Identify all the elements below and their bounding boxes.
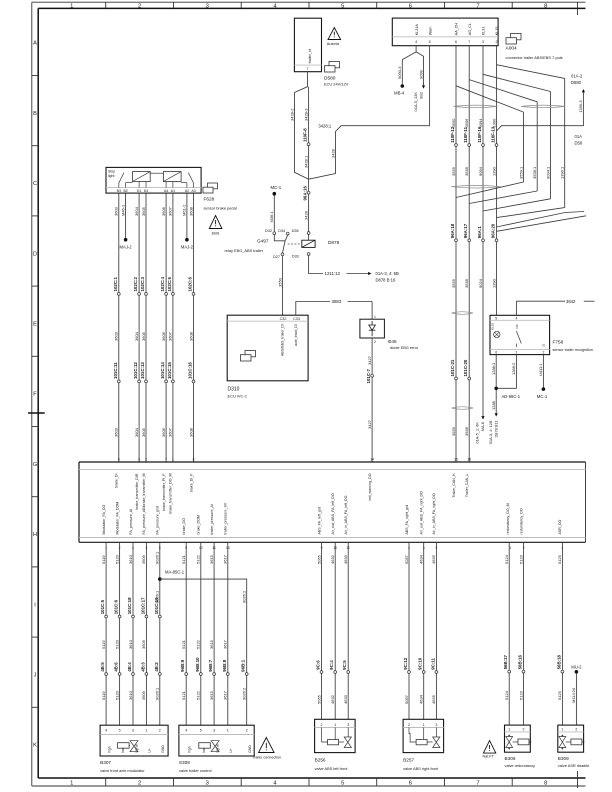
wire 5119 [101, 542, 106, 725]
svg-text:101C-21: 101C-21 [450, 359, 455, 376]
svg-text:3609: 3609 [141, 554, 146, 564]
svg-text:M36:1: M36:1 [269, 211, 274, 223]
node MA-85C-1 [158, 570, 185, 581]
strip pin brake_DI [115, 457, 120, 488]
strip pin redundancy_DO [520, 508, 525, 550]
svg-text:01A: 01A [575, 134, 583, 139]
svg-text:4635: 4635 [431, 554, 436, 564]
svg-text:96A:17: 96A:17 [463, 223, 468, 238]
svg-text:3427: 3427 [367, 419, 372, 429]
svg-text:9C:5: 9C:5 [342, 660, 347, 670]
svg-text:A1: A1 [171, 189, 175, 193]
svg-text:MC-1: MC-1 [537, 394, 548, 399]
svg-text:56B:17: 56B:17 [503, 654, 508, 669]
label F758 [553, 340, 593, 353]
svg-text:FA_pressure_ABI: FA_pressure_ABI [142, 506, 146, 534]
strip pin redundancy_DO_M [506, 503, 511, 549]
svg-text:3: 3 [347, 723, 349, 727]
wire 4633 [343, 542, 348, 719]
svg-text:101C:19: 101C:19 [154, 597, 159, 614]
connector pin 96B:7 [208, 659, 215, 675]
strip pin Modulator_FA_DO [102, 505, 107, 550]
svg-text:trailer_pressure_AI: trailer_pressure_AI [210, 504, 214, 534]
svg-text:MAJ-2: MAJ-2 [181, 245, 194, 250]
strip pin brake_transmitter_PI_F [162, 457, 167, 511]
svg-text:ASR_DO: ASR_DO [558, 520, 562, 535]
ground MU-2 [571, 664, 582, 673]
svg-text:102C:3: 102C:3 [140, 277, 145, 292]
svg-text:4634: 4634 [419, 694, 424, 704]
svg-text:3558: 3558 [464, 278, 469, 288]
svg-text:F: F [33, 392, 37, 398]
strip pin Trailer_CAN_L [465, 457, 471, 497]
connector A004 box [392, 18, 499, 46]
svg-text:VIC: VIC [515, 323, 519, 329]
twisted pair symbols [451, 105, 565, 409]
svg-text:valve ABS left front: valve ABS left front [315, 766, 349, 771]
svg-text:KL31A: KL31A [415, 24, 419, 36]
svg-text:1: 1 [508, 727, 510, 731]
svg-text:3605: 3605 [141, 331, 146, 341]
svg-text:1: 1 [374, 315, 376, 319]
svg-text:3428: 3428 [330, 148, 335, 158]
wire M114:20 [571, 674, 576, 726]
svg-text:3428:1: 3428:1 [318, 123, 331, 128]
svg-text:9094: 9094 [478, 166, 483, 176]
svg-text:3606: 3606 [161, 427, 166, 437]
svg-text:brake_transmitter_M: brake_transmitter_M [142, 474, 146, 507]
svg-text:FA_pressure_AI: FA_pressure_AI [129, 509, 133, 535]
svg-text:2: 2 [408, 723, 410, 727]
svg-text:5122: 5122 [196, 554, 201, 564]
svg-text:1211:12: 1211:12 [325, 271, 341, 276]
svg-text:valve front axle modulator: valve front axle modulator [100, 768, 145, 773]
svg-text:AG_CL: AG_CL [468, 23, 472, 35]
svg-text:101C:16: 101C:16 [188, 362, 193, 379]
wire 9094 from A004 pin [478, 46, 483, 417]
wire 9094 arrow to reference MA-6 [475, 416, 486, 444]
svg-text:MC-1: MC-1 [271, 185, 282, 190]
svg-text:3428: 3428 [303, 210, 308, 220]
svg-text:96A:1: 96A:1 [477, 226, 482, 239]
svg-text:1390-5: 1390-5 [578, 100, 583, 112]
connector pin 96A:20 [491, 223, 498, 241]
svg-text:5125: 5125 [557, 690, 562, 700]
relay coil D878 [292, 229, 340, 259]
svg-text:5120: 5120 [114, 639, 119, 649]
svg-text:6: 6 [409, 781, 412, 787]
svg-text:6: 6 [495, 350, 497, 354]
svg-text:3: 3 [206, 781, 209, 787]
svg-text:5: 5 [495, 316, 497, 320]
svg-text:H: H [33, 532, 37, 538]
svg-text:trailer_pressure_SV: trailer_pressure_SV [224, 502, 228, 534]
wire 9026:1 [155, 542, 160, 725]
svg-text:7: 7 [307, 67, 309, 71]
svg-text:C33: C33 [293, 317, 300, 321]
connector pin 101C:19 [154, 597, 161, 618]
connector pin 96A:1 [477, 226, 484, 242]
svg-text:101C:14: 101C:14 [160, 362, 165, 379]
svg-text:brake_transmitter_DO_M: brake_transmitter_DO_M [169, 473, 173, 513]
wire 3605 [141, 193, 146, 462]
svg-text:1288: 1288 [491, 400, 496, 410]
svg-text:5124: 5124 [504, 690, 509, 700]
svg-text:101C:13: 101C:13 [140, 362, 145, 379]
wire 3610 [128, 542, 133, 725]
valve B307 front axle modulator [100, 725, 168, 773]
ECU D310 box [227, 315, 308, 398]
svg-text:I045: I045 [388, 339, 398, 344]
ECU D580 icon [324, 62, 349, 87]
svg-text:3: 3 [132, 729, 134, 733]
wire 4635 [431, 542, 436, 719]
svg-text:brake_transmitter_DIR: brake_transmitter_DIR [135, 473, 139, 510]
strip pin red_warning_DO [368, 457, 374, 500]
connector pin 101C:16 [188, 362, 195, 383]
svg-text:3: 3 [482, 40, 484, 44]
svg-text:8: 8 [193, 457, 195, 461]
svg-text:3550: 3550 [277, 277, 282, 287]
sensor F758 box [490, 315, 550, 354]
wire 3842 [516, 299, 594, 315]
wire 3556 from A004 pin [464, 46, 469, 462]
wire 3608 [188, 193, 193, 462]
wire M46-2 to ground MAJ-2 [120, 193, 133, 250]
valve S308 trailer control [179, 725, 254, 773]
connector pin 96B:8 [222, 659, 229, 675]
svg-text:redundancy_DO: redundancy_DO [520, 508, 524, 534]
svg-text:3428-2: 3428-2 [289, 108, 294, 121]
svg-text:3428:1: 3428:1 [303, 155, 308, 168]
svg-text:G: G [33, 462, 37, 468]
svg-text:110F-13: 110F-13 [491, 126, 496, 143]
connector pin 9C:11 [430, 658, 437, 674]
svg-text:1390: 1390 [491, 118, 496, 128]
svg-text:9024: 9024 [478, 278, 483, 288]
wire 3606 [161, 193, 166, 462]
svg-text:2: 2 [523, 727, 525, 731]
svg-text:valve trailer control: valve trailer control [179, 768, 212, 773]
svg-text:Modulator_FA_DO: Modulator_FA_DO [102, 505, 106, 535]
svg-text:J: J [34, 673, 37, 679]
svg-text:Air_in_ABS_FA_left_DO: Air_in_ABS_FA_left_DO [344, 495, 348, 534]
svg-text:5: 5 [429, 40, 431, 44]
svg-text:D878:B11: D878:B11 [494, 421, 499, 438]
svg-text:2: 2 [496, 40, 498, 44]
connector pin 96A:17 [463, 223, 470, 241]
svg-text:96A:20: 96A:20 [491, 223, 496, 238]
svg-text:102C:6: 102C:6 [188, 277, 193, 292]
wire 1390-5 branch to D580 reference [497, 74, 586, 146]
svg-text:14: 14 [370, 457, 374, 461]
warning triangle Trailer connection [252, 738, 281, 760]
strip pin trailer_pressure_AI [210, 504, 216, 550]
svg-text:Warn: Warn [428, 27, 432, 36]
svg-text:3615: 3615 [209, 639, 214, 649]
svg-text:96B:9: 96B:9 [180, 659, 185, 672]
svg-text:B306: B306 [505, 756, 516, 761]
svg-text:5125: 5125 [557, 554, 562, 564]
connector pin 101C:6 [114, 599, 121, 618]
wire 4634 [419, 542, 424, 719]
svg-text:5121: 5121 [181, 639, 186, 649]
svg-text:9026:2: 9026:2 [242, 590, 247, 603]
svg-text:96B:8: 96B:8 [222, 659, 227, 672]
svg-text:102C:1: 102C:1 [113, 277, 118, 292]
svg-text:2: 2 [138, 781, 141, 787]
svg-text:4B:5: 4B:5 [100, 662, 105, 672]
wire 3604 [134, 193, 139, 462]
svg-text:4B:4: 4B:4 [127, 662, 132, 672]
svg-text:101C:5: 101C:5 [100, 599, 105, 614]
connector pin 102C:5 [167, 277, 174, 296]
strip pin ABS_FA_right_grd [405, 505, 410, 550]
warning triangle Austria [327, 28, 341, 47]
label F628 [204, 197, 237, 211]
svg-text:B3: B3 [117, 189, 121, 193]
svg-text:trailer_st: trailer_st [308, 49, 312, 63]
connector pin 96B:10 [195, 657, 202, 676]
svg-text:U+: U+ [148, 748, 152, 752]
svg-text:101C:11: 101C:11 [113, 362, 118, 379]
connector pin 4B:5 [100, 662, 107, 676]
svg-text:4: 4 [515, 316, 517, 320]
svg-text:102C:2: 102C:2 [133, 277, 138, 292]
wire 3427 [367, 338, 372, 462]
connector pin 102C:3 [140, 277, 147, 296]
svg-text:MAJ-2: MAJ-2 [120, 245, 133, 250]
connector pin 56B:16 [518, 654, 525, 673]
svg-text:96B:10: 96B:10 [195, 657, 200, 672]
wire stub 1390 to right edge [497, 212, 587, 232]
svg-text:5121: 5121 [181, 690, 186, 700]
node AD-65C-1 [494, 387, 520, 399]
connector pin 96B:9 [180, 659, 187, 675]
connector pin 101C:14 [160, 362, 167, 383]
svg-text:high: high [107, 746, 111, 752]
svg-text:1390: 1390 [491, 166, 496, 176]
svg-text:101C:12: 101C:12 [133, 362, 138, 379]
svg-text:Trailer connection: Trailer connection [252, 756, 281, 760]
svg-text:9026:2: 9026:2 [242, 687, 247, 700]
svg-text:9C:4: 9C:4 [329, 660, 334, 670]
svg-text:8: 8 [544, 3, 547, 9]
svg-text:5: 5 [119, 729, 121, 733]
svg-text:3842: 3842 [566, 299, 576, 304]
connector pin 101C-21 [450, 359, 457, 380]
svg-text:3610: 3610 [128, 639, 133, 649]
svg-text:4: 4 [105, 729, 107, 733]
wire 5055 [316, 542, 321, 719]
strip pin FA_pressure_gnd [156, 506, 161, 550]
svg-text:3: 3 [435, 723, 437, 727]
connector pin 101C:15 [167, 362, 174, 383]
svg-text:1390:1: 1390:1 [560, 166, 565, 179]
svg-text:3608: 3608 [188, 331, 193, 341]
svg-text:GND: GND [161, 745, 165, 753]
svg-text:5: 5 [341, 781, 344, 787]
svg-text:B: B [33, 111, 37, 117]
svg-text:5055: 5055 [316, 694, 321, 704]
svg-text:3607: 3607 [168, 331, 173, 341]
svg-text:KL15: KL15 [495, 27, 499, 36]
svg-text:ABS_FA_right_grd: ABS_FA_right_grd [405, 505, 409, 535]
svg-text:2: 2 [138, 3, 141, 9]
strip pin brake_DOM [197, 515, 203, 550]
svg-text:B2: B2 [123, 189, 127, 193]
svg-text:5: 5 [341, 3, 344, 9]
strip pin ASR_DO [558, 520, 563, 550]
central connector strip [79, 462, 586, 542]
svg-text:1: 1 [227, 729, 229, 733]
wire 3550 [277, 256, 282, 316]
svg-text:1390: 1390 [491, 278, 496, 288]
svg-text:D33: D33 [292, 255, 299, 259]
svg-text:3615: 3615 [209, 554, 214, 564]
wire 3607 [168, 193, 173, 462]
connector pin 9C:6 [316, 660, 323, 674]
svg-text:7: 7 [165, 457, 167, 461]
svg-text:M61-2: M61-2 [182, 204, 187, 216]
wire 3603 [114, 193, 119, 462]
svg-text:S308: S308 [179, 760, 190, 765]
sensor F628 box [106, 167, 201, 193]
svg-text:5119: 5119 [101, 640, 106, 649]
connector pin 4B:4 [127, 662, 134, 676]
diode I045 [360, 319, 419, 350]
svg-text:D310: D310 [228, 386, 240, 392]
svg-text:4634: 4634 [419, 554, 424, 564]
svg-text:Air_in_ABS_FA_right_DO: Air_in_ABS_FA_right_DO [432, 493, 436, 534]
svg-text:5119: 5119 [101, 691, 106, 700]
svg-text:1288:2: 1288:2 [511, 362, 516, 375]
connector pin 101C:17 [140, 597, 147, 618]
svg-text:sensor trailer recognition: sensor trailer recognition [553, 348, 593, 352]
wire 1288:1 [491, 355, 496, 387]
svg-text:4B:3: 4B:3 [140, 662, 145, 672]
svg-text:5123: 5123 [518, 690, 523, 700]
svg-text:1: 1 [561, 727, 563, 731]
svg-text:5055: 5055 [316, 554, 321, 564]
svg-text:Air_out_ABS_FA_left_DO: Air_out_ABS_FA_left_DO [331, 493, 335, 534]
svg-text:valve ASR disable: valve ASR disable [558, 763, 589, 768]
svg-text:G497: G497 [257, 238, 269, 243]
svg-text:3556: 3556 [464, 118, 469, 128]
svg-text:4B:2: 4B:2 [154, 662, 159, 672]
svg-text:3558:1: 3558:1 [532, 166, 537, 179]
strip pin Air_in_ABS_FA_left_DO [344, 495, 350, 549]
svg-text:3609: 3609 [141, 639, 146, 649]
svg-text:F628: F628 [204, 197, 215, 202]
svg-text:9C:12: 9C:12 [403, 657, 408, 670]
wire pair branch 1390:1 [497, 65, 565, 218]
svg-text:brake_transmitter_PI_F: brake_transmitter_PI_F [162, 473, 166, 511]
svg-text:D4: D4 [144, 189, 149, 193]
svg-text:3604: 3604 [134, 331, 139, 341]
strip pin brake_transmitter_DIR [135, 457, 140, 509]
svg-text:redundancy_DO_M: redundancy_DO_M [506, 503, 510, 534]
strip pin Air_out_ABS_FA_left_DO [331, 493, 337, 550]
svg-text:brake_DI_F: brake_DI_F [189, 473, 193, 493]
svg-text:brake_DOM: brake_DOM [197, 515, 201, 534]
wire 5123 [518, 542, 523, 725]
relay G497 contacts [225, 229, 302, 259]
svg-text:5: 5 [200, 729, 202, 733]
connector pin 110F-16 [477, 126, 484, 146]
wire pair branch 3559:1 [456, 86, 524, 198]
svg-text:3607: 3607 [168, 427, 173, 437]
svg-text:MB-4: MB-4 [394, 91, 405, 96]
svg-text:2: 2 [575, 727, 577, 731]
svg-text:110F-8: 110F-8 [302, 128, 307, 142]
svg-text:3603: 3603 [114, 427, 119, 437]
svg-text:01A-3, 4: 12B: 01A-3, 4: 12B [488, 420, 493, 444]
svg-text:3610: 3610 [128, 554, 133, 564]
svg-text:5123: 5123 [518, 554, 523, 564]
connector pin 101C:18 [127, 597, 134, 618]
svg-text:3617: 3617 [223, 554, 228, 564]
svg-text:3615: 3615 [209, 690, 214, 700]
svg-text:110F-16: 110F-16 [477, 126, 482, 143]
svg-text:4633: 4633 [343, 694, 348, 704]
svg-text:ABS_FA_left_grd: ABS_FA_left_grd [317, 507, 321, 535]
svg-text:1: 1 [145, 729, 147, 733]
svg-text:3559:1: 3559:1 [518, 166, 523, 179]
svg-text:1: 1 [70, 3, 73, 9]
svg-text:B256: B256 [315, 758, 326, 763]
strip pin Air_out_ABS_FA_right_DO [420, 491, 425, 550]
connector pin 9C:5 [342, 660, 349, 674]
svg-text:9026:1: 9026:1 [155, 551, 160, 564]
svg-text:1: 1 [334, 723, 336, 727]
svg-text:3606: 3606 [161, 331, 166, 341]
svg-text:Trailer_CAN_L: Trailer_CAN_L [465, 474, 469, 498]
svg-text:Stop: Stop [108, 170, 115, 174]
svg-text:valve ABS right front: valve ABS right front [403, 766, 439, 771]
svg-text:M46-2: M46-2 [120, 204, 125, 216]
node MC-1 [271, 185, 282, 195]
wire 3428:1 from A004 Warn pin [309, 46, 430, 180]
svg-text:5122: 5122 [196, 690, 201, 700]
svg-text:D1: D1 [137, 189, 142, 193]
svg-text:light: light [108, 174, 114, 178]
svg-text:3604: 3604 [134, 427, 139, 437]
svg-text:MU-2: MU-2 [571, 664, 582, 669]
svg-text:3604: 3604 [134, 206, 139, 216]
svg-text:2: 2 [246, 729, 248, 733]
svg-text:MA-85C-1: MA-85C-1 [165, 570, 185, 575]
svg-text:A: A [33, 41, 37, 47]
svg-text:A2: A2 [185, 189, 189, 193]
strip pin brake_transmitter_M [142, 457, 147, 506]
label A004 [506, 46, 563, 61]
wire 5120 [114, 542, 119, 725]
svg-text:Air_out_ABS_FA_right_DO: Air_out_ABS_FA_right_DO [420, 491, 424, 535]
svg-text:9C:11: 9C:11 [430, 658, 435, 670]
svg-text:A004: A004 [506, 46, 518, 52]
svg-text:96B:1: 96B:1 [241, 659, 246, 672]
svg-text:3608: 3608 [188, 206, 193, 216]
svg-text:16: 16 [467, 457, 471, 461]
connector pin 9C:12 [403, 657, 410, 673]
svg-text:B307: B307 [100, 760, 111, 765]
svg-text:3617: 3617 [223, 639, 228, 649]
connector icon A004 [506, 34, 521, 45]
svg-text:K: K [33, 743, 37, 749]
connector pin 96B:1 [241, 659, 248, 675]
wire 3617 [223, 542, 228, 725]
